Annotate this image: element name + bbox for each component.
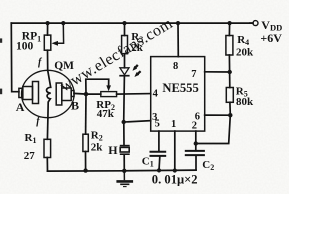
wire: NE555 pin 1 lead to rail bbox=[174, 131, 176, 170]
wire: NE555 pin 2 lead bbox=[195, 131, 197, 143]
svg-text:QM: QM bbox=[54, 60, 74, 72]
node: pin7-R4-R5 bbox=[228, 70, 232, 74]
wire: H bottom lead to rail bbox=[123, 155, 125, 171]
svg-text:8: 8 bbox=[173, 61, 178, 72]
QM left electrode stack bbox=[19, 82, 39, 104]
wire: NE555 pin 6 to R5 bottom bbox=[205, 114, 231, 116]
svg-text:80k: 80k bbox=[236, 96, 254, 108]
svg-text:2k: 2k bbox=[91, 142, 104, 154]
wire: NE555 pin 5 lead to C1 bbox=[158, 131, 160, 151]
svg-text:7: 7 bbox=[191, 69, 196, 80]
svg-text:6: 6 bbox=[195, 111, 200, 122]
resistor R5 bbox=[226, 88, 233, 103]
svg-text:100: 100 bbox=[16, 41, 34, 53]
wire: R4 bottom lead to pin7 junction bbox=[228, 55, 230, 72]
svg-text:1: 1 bbox=[171, 119, 176, 130]
svg-text:27: 27 bbox=[24, 150, 36, 162]
wire: C2 bottom lead to rail end bbox=[195, 156, 197, 170]
svg-text:H: H bbox=[108, 143, 118, 157]
wire: R4 top lead bbox=[228, 23, 230, 35]
svg-text:B: B bbox=[71, 99, 79, 113]
wire: C1 bottom lead bbox=[158, 157, 161, 171]
wire: R2 top lead bbox=[85, 94, 87, 134]
node: rail-C1 bbox=[157, 168, 161, 172]
resistor R1 bbox=[44, 139, 51, 157]
wire: R5 bottom to pin6 node bbox=[229, 102, 231, 115]
svg-text:A: A bbox=[16, 100, 25, 114]
wire: node P3 to H top bbox=[123, 122, 125, 145]
LED light arrows bbox=[133, 65, 141, 77]
wire: RP2 right terminal to NE555 pin 4 bbox=[117, 93, 151, 96]
watermark bbox=[57, 15, 176, 96]
wire: RP2 wiper return to node B bbox=[86, 79, 109, 94]
node P3 junction bbox=[122, 120, 126, 124]
resistor R3 bbox=[122, 36, 128, 54]
wire: page-edge tick lower bbox=[0, 89, 2, 95]
node: rail-R4 bbox=[228, 21, 232, 25]
wire: RP1 bottom lead to QM top bbox=[47, 50, 49, 70]
QM right electrode stack bbox=[56, 83, 74, 105]
wire: left vertical from rail to QM electrode A bbox=[11, 23, 19, 92]
wire: R3 to LED anode bbox=[124, 54, 126, 68]
wire: R3 top lead bbox=[124, 23, 126, 35]
svg-text:5: 5 bbox=[155, 118, 160, 129]
node: rail-pin8 bbox=[176, 21, 180, 25]
capacitor C1 bbox=[150, 152, 167, 156]
LED D1 bbox=[119, 68, 129, 76]
wire: NE555 pin 3 to node P3 bbox=[124, 121, 151, 122]
wire: pin2 node to C2 top bbox=[195, 144, 197, 151]
wire: R1 bottom lead to bottom rail corner bbox=[46, 158, 48, 172]
wire: LED cathode down across pin4 wire to node P3 bbox=[123, 76, 126, 122]
potentiometer RP2 bbox=[101, 92, 117, 97]
ground bbox=[116, 171, 133, 187]
resistor R2 bbox=[83, 134, 88, 151]
wire: node B to RP2 left terminal bbox=[86, 93, 101, 95]
svg-text:NE555: NE555 bbox=[162, 81, 198, 95]
wire: R2 bottom lead bbox=[85, 152, 87, 171]
wire: RP1 top lead bbox=[47, 23, 49, 35]
op-amp U1 NE555 box bbox=[151, 57, 205, 132]
capacitor C2 bbox=[185, 151, 205, 155]
node: rail-RP1 bbox=[46, 21, 50, 25]
node: rail-R2 bbox=[83, 168, 87, 172]
wire: VDD rail stub to terminal bbox=[250, 22, 253, 24]
terminal VDD bbox=[253, 21, 258, 26]
svg-text:47k: 47k bbox=[97, 108, 115, 120]
node B junction bbox=[84, 92, 88, 96]
node: rail-pin1 bbox=[173, 168, 177, 172]
svg-text:20k: 20k bbox=[236, 47, 254, 59]
svg-text:+6V: +6V bbox=[260, 31, 282, 45]
wire: QM bottom to R1 bbox=[46, 118, 49, 140]
potentiometer RP1 bbox=[44, 23, 63, 50]
svg-text:0. 01μ×2: 0. 01μ×2 bbox=[152, 173, 198, 187]
wire: NE555 pin 8 to top rail bbox=[177, 23, 179, 57]
wire: top VDD rail bbox=[11, 22, 253, 24]
wire: page-edge tick upper bbox=[0, 38, 2, 42]
wire: QM B lead to node B bbox=[74, 92, 86, 95]
node: rail-wiper1 bbox=[61, 21, 65, 25]
resistor R4 bbox=[226, 36, 233, 56]
wire: NE555 pin 7 to R4/R5 junction bbox=[205, 71, 230, 73]
svg-text:4: 4 bbox=[153, 89, 159, 100]
node: rail-R3 bbox=[122, 21, 126, 25]
wire: pin6 node down and left to pin2 node bbox=[196, 115, 231, 143]
wire: QM center rod with spring squiggle bbox=[47, 70, 51, 117]
piezo sounder H bbox=[120, 146, 130, 155]
svg-text:2k: 2k bbox=[131, 42, 144, 54]
node: rail-ground bbox=[122, 169, 126, 173]
wire: junction to R5 top bbox=[229, 72, 231, 88]
transducer QM circle bbox=[22, 70, 75, 117]
node: pin2-C2 bbox=[194, 141, 198, 145]
node: pin6-R5 bbox=[228, 113, 232, 117]
wire: bottom ground rail bbox=[48, 170, 197, 171]
